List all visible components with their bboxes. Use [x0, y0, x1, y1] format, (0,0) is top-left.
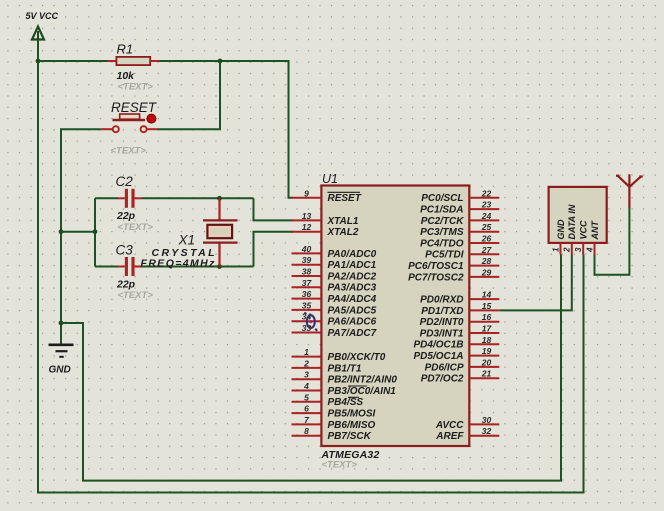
svg-text:PD0/RXD: PD0/RXD: [420, 295, 463, 306]
svg-text:PA1/ADC1: PA1/ADC1: [328, 260, 377, 271]
crystal X1: [218, 198, 220, 220]
pin 40 PA0/ADC0 left: [292, 252, 322, 254]
ground: [49, 343, 74, 346]
svg-text:PA0/ADC0: PA0/ADC0: [328, 249, 377, 260]
RF module body: [549, 187, 607, 243]
pin 3 PB2/INT2/AIN0 left: [292, 378, 322, 380]
svg-text:PA7/ADC7: PA7/ADC7: [328, 328, 377, 339]
svg-text:3: 3: [574, 247, 583, 252]
op chip U1 body: [321, 186, 469, 447]
svg-text:PA5/ADC5: PA5/ADC5: [328, 305, 377, 316]
wire: C3 row: [95, 266, 118, 268]
svg-text:12: 12: [302, 222, 312, 232]
wire: U1 TXD to RF DATA IN pin2: [499, 255, 572, 311]
svg-text:PC0/SCL: PC0/SCL: [421, 193, 463, 204]
capacitor C2: [118, 197, 125, 199]
svg-text:PB1/T1: PB1/T1: [328, 363, 362, 374]
svg-text:14: 14: [482, 290, 492, 300]
svg-text:<TEXT>: <TEXT>: [118, 222, 154, 233]
svg-text:39: 39: [302, 255, 312, 265]
svg-text:<TEXT>: <TEXT>: [111, 146, 147, 157]
node: junction GND rail / caps branch: [59, 229, 64, 234]
pin 26 PC4/TDO right: [469, 242, 499, 244]
pushbutton RESET: [101, 128, 113, 130]
svg-text:C2: C2: [116, 174, 134, 189]
svg-text:36: 36: [302, 289, 312, 299]
svg-text:<TEXT>: <TEXT>: [322, 460, 358, 471]
svg-text:XTAL2: XTAL2: [327, 227, 359, 238]
pin 38 PA2/ADC2 left: [292, 275, 322, 277]
pin 17 PD3/INT1 right: [469, 332, 499, 334]
pin 8 PB7/SCK left: [292, 435, 322, 437]
svg-text:PC4/TDO: PC4/TDO: [420, 238, 464, 249]
svg-text:17: 17: [482, 324, 493, 334]
svg-text:PB7/SCK: PB7/SCK: [328, 431, 372, 442]
wire: R1 to U1 RESET pin: [160, 61, 294, 198]
pin 15 PD1/TXD right: [469, 309, 499, 311]
svg-text:GND: GND: [556, 219, 566, 240]
pin 14 PD0/RXD right: [469, 298, 499, 300]
svg-text:35: 35: [302, 300, 312, 310]
svg-text:R1: R1: [117, 42, 134, 57]
svg-text:PD5/OC1A: PD5/OC1A: [413, 351, 463, 362]
pin 3 VCC RF: [582, 243, 584, 255]
pin 29 PC7/TOSC2 right: [469, 276, 499, 278]
svg-text:1: 1: [304, 347, 309, 357]
pin 6 PB5/MOSI left: [292, 412, 322, 414]
svg-text:29: 29: [481, 267, 492, 277]
svg-text:26: 26: [481, 234, 492, 244]
svg-text:PD3/INT1: PD3/INT1: [420, 328, 464, 339]
pin 39 PA1/ADC1 left: [292, 264, 322, 266]
pin 33 PA7/ADC7 left: [292, 332, 322, 334]
svg-text:8: 8: [304, 426, 309, 436]
svg-text:23: 23: [481, 200, 492, 210]
wire: GND branch to RF pin1: [61, 255, 561, 481]
svg-text:PC3/TMS: PC3/TMS: [420, 227, 464, 238]
svg-text:AVCC: AVCC: [435, 420, 464, 431]
pin 32 AREF right: [469, 435, 499, 437]
pin 21 PD7/OC2 right: [469, 377, 499, 379]
resistor R1: [108, 60, 117, 62]
svg-text:PD2/INT0: PD2/INT0: [420, 317, 464, 328]
svg-text:PB5/MOSI: PB5/MOSI: [328, 409, 376, 420]
pin 7 PB6/MISO left: [292, 423, 322, 425]
node: junction crystal top: [217, 196, 222, 201]
svg-text:28: 28: [481, 256, 492, 266]
svg-text:1: 1: [551, 247, 560, 252]
svg-text:20: 20: [481, 357, 492, 367]
svg-text:GND: GND: [49, 365, 71, 376]
cursor artifact near pin 34: [304, 312, 317, 330]
svg-text:PB3/OC0/AIN1: PB3/OC0/AIN1: [328, 386, 397, 397]
pin 4 ANT RF: [594, 243, 596, 255]
svg-text:C3: C3: [116, 242, 134, 257]
wire: reset button left to GND rail: [61, 129, 101, 344]
svg-text:4: 4: [303, 381, 309, 391]
svg-text:X1: X1: [178, 232, 196, 247]
pin 19 PD5/OC1A right: [469, 355, 499, 357]
svg-text:21: 21: [481, 369, 492, 379]
svg-text:10k: 10k: [117, 70, 136, 82]
pin 1 GND RF: [560, 243, 562, 255]
svg-text:PA3/ADC3: PA3/ADC3: [328, 283, 377, 294]
svg-text:PD6/ICP: PD6/ICP: [425, 362, 464, 373]
svg-text:RESET: RESET: [111, 100, 158, 115]
capacitor C3: [118, 266, 125, 268]
svg-text:16: 16: [482, 312, 492, 322]
svg-text:RESET: RESET: [328, 193, 362, 204]
wire: RF ANT pin4 to antenna: [595, 207, 630, 275]
svg-text:ANT: ANT: [590, 220, 600, 241]
svg-text:22p: 22p: [116, 279, 136, 291]
wire: C3 row to XTAL2 pin 12: [254, 232, 294, 267]
svg-text:25: 25: [481, 222, 492, 232]
svg-text:PB4/SS: PB4/SS: [328, 397, 364, 408]
wire: junction down to reset button right: [158, 61, 221, 129]
node: junction caps left: [93, 229, 98, 234]
pin 37 PA3/ADC3 left: [292, 286, 322, 288]
pin 18 PD4/OC1B right: [469, 343, 499, 345]
pin 27 PC5/TDI right: [469, 253, 499, 255]
pin 1 PB0/XCK/T0 left: [292, 356, 322, 358]
svg-text:13: 13: [302, 211, 312, 221]
svg-text:PC1/SDA: PC1/SDA: [420, 205, 463, 216]
node: junction 5V/R1: [36, 59, 41, 64]
pin 5 PB4/SS left: [292, 401, 322, 403]
svg-text:19: 19: [482, 346, 492, 356]
antenna: [616, 174, 643, 207]
svg-text:18: 18: [482, 335, 492, 345]
svg-text:5: 5: [304, 392, 309, 402]
pin 2 PB1/T1 left: [292, 367, 322, 369]
svg-text:32: 32: [482, 426, 492, 436]
svg-text:PA4/ADC4: PA4/ADC4: [328, 294, 377, 305]
power arrow symbol: [32, 27, 44, 40]
svg-text:PD7/OC2: PD7/OC2: [421, 374, 464, 385]
svg-text:PB6/MISO: PB6/MISO: [328, 420, 376, 431]
svg-text:22p: 22p: [116, 210, 136, 222]
wire: caps left vertical: [94, 198, 96, 266]
svg-text:15: 15: [482, 301, 492, 311]
svg-text:PB0/XCK/T0: PB0/XCK/T0: [328, 352, 386, 363]
svg-text:37: 37: [302, 278, 313, 288]
svg-text:24: 24: [481, 211, 492, 221]
svg-text:6: 6: [304, 404, 309, 414]
svg-text:4: 4: [585, 247, 594, 253]
svg-text:5V VCC: 5V VCC: [26, 11, 59, 21]
pin 2 DATA IN RF: [571, 243, 573, 255]
pin 28 PC6/TOSC1 right: [469, 265, 499, 267]
svg-text:22: 22: [481, 188, 492, 198]
svg-text:PC7/TOSC2: PC7/TOSC2: [408, 272, 464, 283]
svg-text:30: 30: [482, 415, 492, 425]
pin 25 PC3/TMS right: [469, 231, 499, 233]
wire: C2 row to XTAL1 pin 13: [254, 198, 294, 220]
wire: 5V to R1: [38, 60, 108, 62]
svg-text:AREF: AREF: [435, 431, 464, 442]
svg-text:9: 9: [304, 188, 309, 198]
pin 36 PA4/ADC4 left: [292, 298, 322, 300]
svg-text:VCC: VCC: [579, 220, 589, 240]
svg-text:PD1/TXD: PD1/TXD: [421, 306, 463, 317]
svg-text:PD4/OC1B: PD4/OC1B: [413, 340, 463, 351]
svg-text:FREQ=4MHz: FREQ=4MHz: [141, 258, 216, 270]
pin 34 PA6/ADC6 left: [292, 320, 322, 322]
pin 4 PB3/OC0/AIN1 left: [292, 390, 322, 392]
wire: C2 row: [95, 197, 118, 199]
svg-text:PA6/ADC6: PA6/ADC6: [328, 317, 377, 328]
svg-text:27: 27: [481, 245, 493, 255]
pin 20 PD6/ICP right: [469, 366, 499, 368]
svg-text:<TEXT>: <TEXT>: [118, 290, 154, 301]
svg-text:PC6/TOSC1: PC6/TOSC1: [408, 261, 464, 272]
pin 16 PD2/INT0 right: [469, 321, 499, 323]
pin 13 XTAL1 left: [292, 219, 322, 221]
svg-text:PA2/ADC2: PA2/ADC2: [328, 271, 377, 282]
node: junction crystal bottom: [217, 264, 222, 269]
pin 12 XTAL2 left: [292, 231, 322, 233]
svg-text:U1: U1: [322, 172, 338, 186]
pin 30 AVCC right: [469, 423, 499, 425]
svg-text:<TEXT>: <TEXT>: [118, 82, 154, 93]
pin 23 PC1/SDA right: [469, 208, 499, 210]
svg-text:PB2/INT2/AIN0: PB2/INT2/AIN0: [328, 375, 398, 386]
node: junction GND rail / bottom branch: [59, 321, 64, 326]
svg-text:PC2/TCK: PC2/TCK: [421, 216, 465, 227]
svg-text:2: 2: [563, 247, 572, 253]
svg-text:38: 38: [302, 267, 312, 277]
pin 22 PC0/SCL right: [469, 197, 499, 199]
pin 9 RESET left: [292, 197, 322, 199]
actuator red dot: [147, 114, 156, 123]
svg-text:DATA IN: DATA IN: [567, 204, 577, 239]
pin 24 PC2/TCK right: [469, 219, 499, 221]
svg-text:2: 2: [303, 358, 309, 368]
svg-text:PC5/TDI: PC5/TDI: [425, 250, 464, 261]
svg-text:40: 40: [301, 244, 312, 254]
node: junction R1 out / reset button: [218, 59, 223, 64]
wire: 5V rail left/bottom to RF VCC: [38, 40, 584, 493]
svg-text:XTAL1: XTAL1: [327, 216, 359, 227]
svg-text:3: 3: [304, 370, 309, 380]
wire: caps branch horizontal: [61, 231, 95, 233]
pin 35 PA5/ADC5 left: [292, 309, 322, 311]
